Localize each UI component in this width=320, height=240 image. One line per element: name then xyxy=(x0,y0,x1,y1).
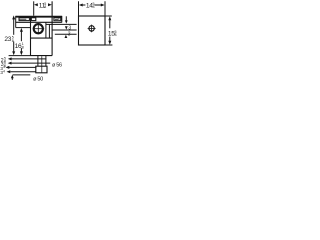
box interior step horizontal xyxy=(46,23,52,25)
dim 16 line lower xyxy=(20,48,22,52)
right view plate rectangle xyxy=(79,16,106,45)
svg-text:8: 8 xyxy=(22,46,24,50)
plate left edge top dim tick extension xyxy=(78,1,80,16)
svg-text:3: 3 xyxy=(68,31,71,37)
dim 15 line lower xyxy=(109,37,111,42)
middle slot mark xyxy=(31,18,36,21)
svg-text:ø 50: ø 50 xyxy=(33,77,43,83)
dim 16 arrow down xyxy=(20,51,23,55)
dim 16 arrow up xyxy=(20,28,23,32)
right T-slot mid line xyxy=(55,18,59,20)
dim 14 arrow right xyxy=(101,4,105,7)
shaft center line xyxy=(41,56,43,72)
shaft right line xyxy=(45,56,47,67)
dim 14 line right segment xyxy=(95,4,102,6)
dim 11-5/8 arrow right xyxy=(48,3,52,6)
leader row D line xyxy=(10,71,36,73)
svg-text:4: 4 xyxy=(3,69,5,73)
baseline arrow E up xyxy=(11,75,14,79)
svg-text:23: 23 xyxy=(4,36,11,43)
leader row B line xyxy=(10,62,50,64)
arm top thick band xyxy=(16,16,62,18)
dim 14 line left segment xyxy=(82,4,85,6)
leader row C arrow xyxy=(6,66,10,69)
dim 23 arrow up xyxy=(12,15,15,19)
plate right edge top dim tick extension xyxy=(104,1,106,16)
small dim down arrow onto tick 1 xyxy=(65,20,68,23)
arm left end vertical xyxy=(15,16,17,28)
left T-slot rectangle xyxy=(19,18,29,21)
small dim up arrow below tick 3 xyxy=(65,35,68,38)
dim 15 arrow up xyxy=(108,16,111,20)
svg-text:8: 8 xyxy=(12,39,14,43)
small dim down arrow onto tick 2 xyxy=(65,26,68,29)
plate bottom edge tick extension to right xyxy=(105,44,112,46)
leader row A arrow xyxy=(8,57,12,60)
left flange bottom line xyxy=(16,27,31,29)
leader row D arrow xyxy=(7,70,11,73)
dim 16 line upper xyxy=(20,31,22,41)
plate top edge tick extension to right xyxy=(105,15,112,17)
leader row A line xyxy=(10,58,46,60)
box left edge xyxy=(30,16,32,55)
leader row C line xyxy=(9,66,36,68)
dim 23 arrow down xyxy=(12,51,15,55)
dim 14 arrow left xyxy=(79,4,83,7)
collar outline xyxy=(36,66,47,73)
svg-text:ø 56: ø 56 xyxy=(52,62,62,68)
svg-text:8: 8 xyxy=(115,33,117,37)
shaft left line xyxy=(37,56,39,67)
right T-slot rectangle xyxy=(54,18,61,21)
dim 23 line lower xyxy=(13,42,15,53)
dim 23 line upper xyxy=(13,19,15,35)
arm bottom line xyxy=(16,21,62,23)
left T-slot mid line xyxy=(19,18,26,20)
arrow E stem xyxy=(11,78,13,80)
plate hole crosshair vertical xyxy=(91,25,93,33)
dim 15 arrow down xyxy=(108,41,111,45)
leader row B arrow xyxy=(8,62,12,65)
baseline extension line E xyxy=(13,74,31,76)
arm right end vertical xyxy=(61,16,63,23)
plate hole crosshair horizontal xyxy=(88,27,96,29)
circle crosshair vertical xyxy=(37,23,39,34)
box bottom edge xyxy=(31,55,53,57)
box interior horizontal line xyxy=(31,37,53,39)
svg-text:8: 8 xyxy=(93,5,95,9)
top dim 11-5/8 left tick xyxy=(33,1,35,15)
small dim tick 2 long xyxy=(52,29,77,31)
dim 15 line upper xyxy=(109,20,111,29)
box interior step vertical 2 xyxy=(48,24,50,38)
small dim tick 3 xyxy=(55,33,77,35)
long flange tick line to right view xyxy=(52,23,77,25)
svg-text:8: 8 xyxy=(44,5,46,9)
small dim vertical above tick 1 xyxy=(65,16,67,21)
dim 11-5/8 arrow left xyxy=(34,3,38,6)
plate hole circle xyxy=(89,26,94,31)
box interior step vertical 1 xyxy=(45,22,47,38)
circle crosshair horizontal xyxy=(33,28,44,30)
box right edge merged with top dim right tick xyxy=(51,1,53,55)
bearing circle xyxy=(34,24,43,33)
bottom extension line xyxy=(9,55,31,57)
